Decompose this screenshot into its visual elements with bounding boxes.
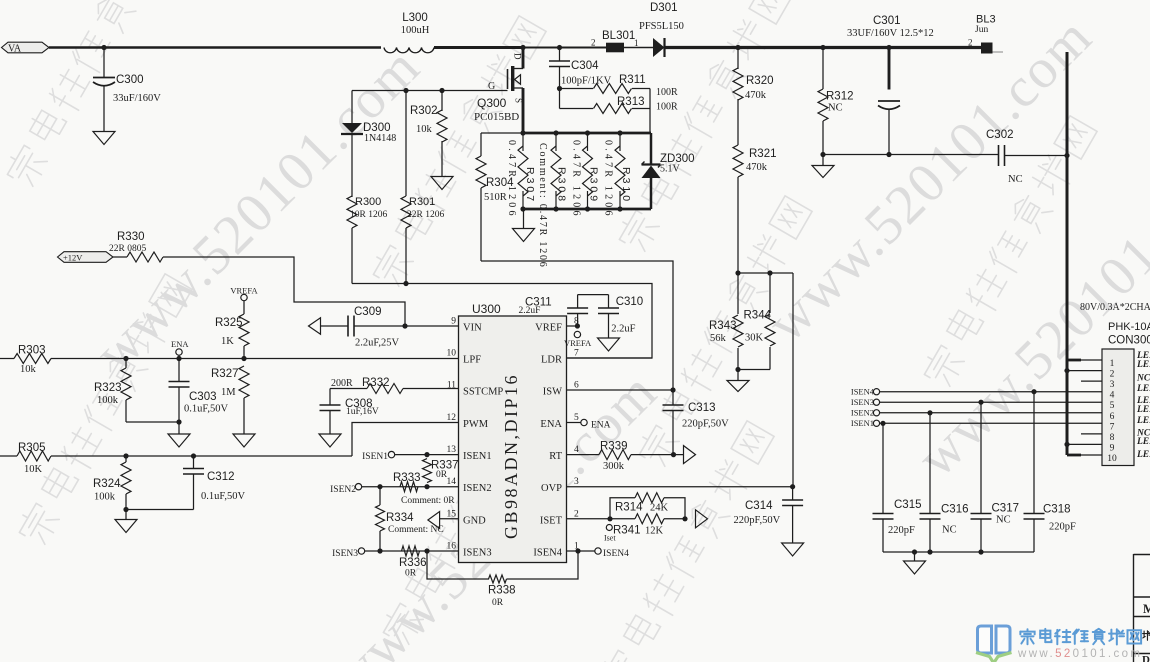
wire OVP drop bbox=[792, 273, 794, 487]
svg-text:ISEN2: ISEN2 bbox=[330, 485, 356, 495]
svg-text:C310: C310 bbox=[616, 296, 644, 308]
svg-text:ISEN1: ISEN1 bbox=[463, 451, 492, 462]
svg-text:NC: NC bbox=[1136, 374, 1150, 384]
ground C314 bbox=[782, 543, 804, 556]
capacitor C313 bbox=[663, 404, 684, 406]
svg-text:R311: R311 bbox=[619, 74, 646, 86]
resistor R334 bbox=[379, 487, 381, 505]
transistor Q300 bbox=[520, 45, 525, 50]
resistor R323 bbox=[123, 356, 128, 361]
svg-text:7: 7 bbox=[1110, 422, 1115, 432]
svg-text:1M: 1M bbox=[221, 387, 236, 398]
svg-text:2.2uF: 2.2uF bbox=[611, 324, 635, 335]
svg-text:R302: R302 bbox=[410, 105, 438, 117]
zener ZD300 bbox=[650, 133, 653, 165]
svg-text:Jun: Jun bbox=[975, 25, 988, 35]
resistor R343 bbox=[737, 273, 739, 314]
svg-text:0.1uF,50V: 0.1uF,50V bbox=[184, 404, 228, 415]
svg-text:Comment: 0.47R 1206: Comment: 0.47R 1206 bbox=[537, 143, 548, 269]
svg-text:1N4148: 1N4148 bbox=[364, 133, 396, 144]
wire gate bbox=[352, 90, 508, 92]
svg-text:6: 6 bbox=[574, 381, 579, 391]
resistor R303 bbox=[0, 358, 14, 360]
wire bus to pin1 bbox=[1067, 359, 1081, 362]
resistor R310 bbox=[615, 146, 625, 196]
capacitor C300 bbox=[103, 48, 105, 78]
resistor R320 bbox=[735, 45, 740, 50]
svg-text:C302: C302 bbox=[986, 129, 1014, 141]
svg-text:R339: R339 bbox=[600, 441, 628, 453]
svg-text:C315: C315 bbox=[894, 499, 922, 511]
resistor R302 bbox=[441, 91, 443, 112]
capacitor C311 bbox=[567, 325, 578, 327]
svg-text:ISET: ISET bbox=[540, 515, 563, 526]
svg-text:10k: 10k bbox=[416, 124, 433, 135]
svg-text:1: 1 bbox=[634, 38, 639, 48]
wire R321 junction bbox=[738, 272, 793, 274]
wire rail to LDR bbox=[352, 284, 652, 359]
svg-text:R323: R323 bbox=[94, 382, 122, 394]
svg-text:100pF/1KV: 100pF/1KV bbox=[561, 76, 612, 87]
svg-text:R309: R309 bbox=[588, 167, 600, 204]
svg-text:R338: R338 bbox=[488, 585, 516, 597]
svg-text:ISEN1: ISEN1 bbox=[362, 452, 388, 462]
svg-text:1uF,16V: 1uF,16V bbox=[346, 407, 379, 417]
resistor R304 bbox=[481, 132, 523, 134]
svg-text:R324: R324 bbox=[93, 478, 121, 490]
svg-text:1K: 1K bbox=[221, 336, 234, 347]
svg-text:OVP: OVP bbox=[541, 483, 562, 494]
svg-text:3: 3 bbox=[574, 477, 579, 487]
resistor R327 bbox=[239, 366, 249, 398]
svg-text:R310: R310 bbox=[620, 167, 632, 204]
svg-text:2: 2 bbox=[591, 38, 596, 48]
ferrite bead BL302 bbox=[981, 43, 993, 54]
inductor L300 bbox=[384, 48, 434, 53]
svg-text:PWM: PWM bbox=[463, 419, 489, 430]
svg-text:R343: R343 bbox=[709, 320, 737, 332]
svg-text:220pF: 220pF bbox=[888, 525, 915, 536]
svg-text:Comment: 0R: Comment: 0R bbox=[401, 496, 455, 506]
svg-text:BL3: BL3 bbox=[976, 14, 996, 26]
svg-text:BL301: BL301 bbox=[602, 30, 635, 42]
resistor R339 bbox=[567, 454, 600, 456]
resistor R324 bbox=[123, 453, 128, 458]
svg-text:LPF: LPF bbox=[463, 355, 481, 366]
svg-text:RT: RT bbox=[549, 451, 562, 462]
ground C308 bbox=[319, 434, 341, 447]
svg-text:300k: 300k bbox=[603, 461, 625, 472]
svg-text:R320: R320 bbox=[746, 75, 774, 87]
svg-text:D: D bbox=[513, 53, 523, 60]
svg-text:ISEN2: ISEN2 bbox=[463, 483, 492, 494]
svg-text:R333: R333 bbox=[393, 472, 421, 484]
svg-text:C316: C316 bbox=[941, 504, 969, 516]
svg-text:0.47R 1206: 0.47R 1206 bbox=[571, 140, 582, 219]
ground C303 bbox=[168, 434, 190, 447]
svg-text:220pF,50V: 220pF,50V bbox=[734, 515, 781, 526]
svg-text:15: 15 bbox=[447, 509, 457, 519]
svg-text:R303: R303 bbox=[18, 345, 46, 357]
ground R324 bbox=[115, 520, 137, 533]
svg-text:PHK-10A: PHK-10A bbox=[1108, 321, 1150, 333]
capacitor C318 bbox=[1031, 389, 1036, 394]
svg-text:C304: C304 bbox=[571, 60, 599, 72]
svg-text:C300: C300 bbox=[116, 74, 144, 86]
capacitor C316 bbox=[927, 410, 932, 415]
svg-text:L300: L300 bbox=[402, 12, 428, 24]
svg-text:100uH: 100uH bbox=[401, 25, 430, 36]
capacitor C302 bbox=[998, 145, 1000, 166]
resistor R341 bbox=[567, 518, 611, 520]
svg-text:30K: 30K bbox=[745, 333, 764, 344]
svg-text:80V/0.3A*2CHA: 80V/0.3A*2CHA bbox=[1080, 302, 1150, 313]
svg-text:C309: C309 bbox=[354, 306, 382, 318]
svg-text:C313: C313 bbox=[688, 402, 716, 414]
svg-text:0R: 0R bbox=[436, 470, 448, 480]
svg-text:10R 1206: 10R 1206 bbox=[350, 210, 387, 220]
svg-text:5: 5 bbox=[574, 413, 579, 423]
svg-text:10k: 10k bbox=[20, 364, 37, 375]
wire pin8 stub bbox=[1081, 433, 1102, 435]
resistor R311 bbox=[557, 86, 562, 91]
svg-text:100k: 100k bbox=[94, 492, 116, 503]
resistor R344 bbox=[769, 273, 771, 313]
svg-text:2: 2 bbox=[968, 38, 973, 48]
wire thick bus top bbox=[523, 132, 651, 135]
svg-text:0.1uF,50V: 0.1uF,50V bbox=[201, 491, 245, 502]
ground C310 bbox=[598, 338, 620, 351]
capacitor C308 bbox=[329, 389, 331, 405]
svg-text:R327: R327 bbox=[211, 368, 239, 380]
capacitor C315 bbox=[880, 421, 885, 426]
svg-text:R304: R304 bbox=[486, 177, 514, 189]
svg-text:470k: 470k bbox=[746, 162, 768, 173]
svg-text:NC: NC bbox=[828, 103, 843, 114]
svg-text:470k: 470k bbox=[745, 90, 767, 101]
ground bus bbox=[523, 209, 525, 228]
svg-text:ISEN3: ISEN3 bbox=[851, 397, 874, 407]
arrow ISET bbox=[696, 510, 708, 528]
diode D301 bbox=[653, 38, 665, 57]
wire pin3 stub bbox=[1081, 380, 1102, 382]
svg-text:R336: R336 bbox=[399, 557, 427, 569]
ground arrow C309 bbox=[309, 318, 321, 335]
svg-text:S: S bbox=[514, 98, 524, 103]
svg-text:220pF,50V: 220pF,50V bbox=[682, 419, 729, 430]
net label VA tag bbox=[2, 42, 50, 53]
svg-text:16: 16 bbox=[447, 542, 457, 552]
svg-text:VREFA: VREFA bbox=[230, 286, 258, 296]
svg-text:C314: C314 bbox=[745, 500, 773, 512]
logo book base bbox=[976, 653, 1012, 664]
wire OVP bbox=[567, 486, 793, 488]
capacitor C301 bbox=[886, 45, 891, 50]
logo text chinese bbox=[1020, 629, 1141, 645]
net label ENA pin5 bbox=[567, 422, 581, 424]
svg-text:ISW: ISW bbox=[543, 387, 562, 398]
svg-text:100R: 100R bbox=[656, 102, 678, 113]
ground R327 bbox=[233, 434, 255, 447]
svg-text:4: 4 bbox=[1110, 391, 1115, 401]
svg-text:U300: U300 bbox=[472, 302, 501, 316]
wire LDR bbox=[567, 357, 653, 359]
svg-text:LED: LED bbox=[1136, 360, 1150, 370]
ground C300 bbox=[93, 132, 115, 145]
svg-text:ENA: ENA bbox=[540, 419, 562, 430]
svg-text:12K: 12K bbox=[645, 526, 664, 537]
diode D300 bbox=[351, 91, 353, 124]
capacitor C314 bbox=[792, 487, 794, 500]
svg-text:8: 8 bbox=[1110, 433, 1115, 443]
svg-text:13: 13 bbox=[447, 445, 457, 455]
svg-text:4: 4 bbox=[574, 445, 579, 455]
svg-text:ISEN3: ISEN3 bbox=[463, 548, 492, 559]
resistor R305 bbox=[0, 455, 17, 457]
net VA top rail wire bbox=[49, 46, 381, 49]
svg-text:R300: R300 bbox=[355, 196, 381, 208]
svg-text:LDR: LDR bbox=[541, 355, 562, 366]
svg-text:LED: LED bbox=[1136, 384, 1150, 394]
svg-text:R313: R313 bbox=[617, 96, 645, 108]
svg-text:VA: VA bbox=[8, 44, 22, 55]
capacitor C312 bbox=[191, 453, 196, 458]
resistor R309 bbox=[583, 146, 593, 196]
arrow RT bbox=[684, 446, 696, 464]
ground arrow GND pin15 bbox=[428, 512, 440, 529]
svg-text:33UF/160V 12.5*12: 33UF/160V 12.5*12 bbox=[847, 28, 934, 39]
svg-text:C312: C312 bbox=[207, 471, 235, 483]
svg-text:10K: 10K bbox=[24, 464, 43, 475]
wire stub after BL302 bbox=[993, 51, 1004, 53]
svg-text:ISEN1: ISEN1 bbox=[851, 418, 874, 428]
logo book icon bbox=[978, 626, 1011, 653]
svg-text:ISEN4: ISEN4 bbox=[851, 387, 875, 397]
wire bus to pin10 bbox=[1067, 454, 1081, 457]
svg-text:LED: LED bbox=[1136, 416, 1150, 426]
svg-text:+12V: +12V bbox=[63, 253, 83, 263]
title block table bbox=[1133, 554, 1135, 662]
ground R302 bbox=[431, 177, 453, 190]
wire C301 bottom bbox=[823, 154, 999, 156]
svg-text:VREFA: VREFA bbox=[564, 338, 592, 348]
svg-text:2.2uF: 2.2uF bbox=[519, 306, 541, 316]
svg-text:R325: R325 bbox=[215, 317, 243, 329]
svg-text:9: 9 bbox=[1110, 443, 1115, 453]
svg-text:220pF: 220pF bbox=[1049, 522, 1076, 533]
net circle VREFA pin8 bbox=[574, 331, 580, 337]
svg-text:GND: GND bbox=[463, 515, 486, 526]
svg-text:SSTCMP: SSTCMP bbox=[463, 387, 503, 398]
svg-text:VIN: VIN bbox=[463, 323, 482, 334]
resistor R338 bbox=[427, 551, 489, 579]
svg-text:2.2uF,25V: 2.2uF,25V bbox=[355, 338, 399, 349]
svg-text:7: 7 bbox=[574, 349, 579, 359]
resistor R301 bbox=[405, 91, 407, 197]
capacitor C304 bbox=[557, 45, 562, 50]
svg-text:PC015BD: PC015BD bbox=[474, 111, 519, 123]
resistor R314 bbox=[610, 498, 635, 519]
svg-text:100k: 100k bbox=[97, 395, 119, 406]
svg-text:NC: NC bbox=[1008, 174, 1023, 185]
ground R343 bbox=[737, 370, 739, 381]
svg-text:24K: 24K bbox=[650, 503, 669, 514]
resistor R332 bbox=[330, 388, 367, 390]
svg-text:R330: R330 bbox=[117, 231, 145, 243]
svg-text:C301: C301 bbox=[873, 15, 901, 27]
wire R304 to ISW bbox=[481, 261, 673, 390]
svg-text:3: 3 bbox=[1110, 380, 1115, 390]
svg-text:R301: R301 bbox=[409, 196, 435, 208]
net circle VREFA bbox=[241, 294, 247, 300]
svg-text:C303: C303 bbox=[189, 391, 217, 403]
svg-text:NC: NC bbox=[996, 515, 1011, 526]
svg-text:R332: R332 bbox=[362, 377, 390, 389]
svg-text:ISEN4: ISEN4 bbox=[603, 549, 629, 559]
svg-text:NC: NC bbox=[942, 525, 957, 536]
svg-text:R334: R334 bbox=[386, 512, 414, 524]
svg-text:R314: R314 bbox=[615, 502, 643, 514]
svg-text:R305: R305 bbox=[18, 442, 46, 454]
svg-text:DA: DA bbox=[1142, 654, 1150, 662]
svg-text:M: M bbox=[1143, 602, 1150, 616]
capacitor C317 bbox=[978, 400, 983, 405]
svg-text:GB98ADN,DIP16: GB98ADN,DIP16 bbox=[501, 373, 521, 539]
svg-text:LED: LED bbox=[1136, 405, 1150, 415]
svg-text:10: 10 bbox=[1107, 454, 1117, 464]
svg-text:10: 10 bbox=[447, 349, 457, 359]
resistor R313 bbox=[559, 89, 561, 109]
ferrite bead BL301 bbox=[606, 43, 624, 53]
wire R330 to VIN bbox=[163, 257, 405, 326]
svg-text:510R: 510R bbox=[484, 192, 507, 203]
capacitor C310 bbox=[608, 295, 610, 308]
resistor R307 bbox=[518, 146, 528, 196]
svg-text:ENA: ENA bbox=[591, 421, 611, 431]
resistor R308 bbox=[551, 146, 561, 196]
svg-text:LED: LED bbox=[1136, 450, 1150, 460]
resistor R330 bbox=[58, 252, 114, 263]
svg-text:0R: 0R bbox=[405, 569, 417, 579]
wire VLED thick bus bbox=[1066, 52, 1069, 455]
svg-text:Comment: NC: Comment: NC bbox=[388, 525, 444, 535]
svg-text:R321: R321 bbox=[749, 148, 777, 160]
svg-text:CON300: CON300 bbox=[1108, 335, 1150, 347]
resistor R300 bbox=[347, 196, 357, 228]
svg-text:ENA: ENA bbox=[171, 339, 189, 349]
svg-text:2: 2 bbox=[574, 509, 579, 519]
svg-text:C318: C318 bbox=[1043, 504, 1071, 516]
svg-text:2: 2 bbox=[1110, 370, 1115, 380]
wire thick bus bottom bbox=[523, 208, 651, 211]
svg-text:D301: D301 bbox=[650, 2, 678, 14]
svg-text:12: 12 bbox=[447, 413, 457, 423]
svg-text:ISEN2: ISEN2 bbox=[851, 408, 874, 418]
wire bus to pin2 bbox=[1064, 368, 1069, 373]
net label ISEN4 right of IC bbox=[567, 550, 596, 552]
svg-text:6: 6 bbox=[1110, 412, 1115, 422]
svg-text:ISEN3: ISEN3 bbox=[332, 549, 358, 559]
resistor R337 bbox=[423, 459, 432, 483]
svg-text:LED: LED bbox=[1136, 437, 1150, 447]
svg-text:22R 0805: 22R 0805 bbox=[109, 244, 146, 254]
Q300 arrow bbox=[515, 75, 521, 85]
svg-text:C317: C317 bbox=[992, 503, 1020, 515]
svg-text:33uF/160V: 33uF/160V bbox=[113, 93, 161, 104]
resistor R336 bbox=[402, 546, 420, 556]
svg-text:1: 1 bbox=[1110, 359, 1115, 369]
svg-text:R307: R307 bbox=[524, 167, 536, 204]
svg-text:5.1V: 5.1V bbox=[660, 164, 681, 175]
svg-text:56k: 56k bbox=[710, 333, 727, 344]
op-amp U300 GB98ADN bbox=[459, 316, 567, 563]
svg-text:PFS5L150: PFS5L150 bbox=[639, 21, 684, 32]
wire ISW bbox=[567, 389, 674, 391]
svg-text:R344: R344 bbox=[744, 310, 772, 322]
svg-text:VREF: VREF bbox=[535, 323, 562, 334]
net circle Iset bbox=[606, 525, 612, 531]
wire cap ground rail bbox=[883, 551, 1034, 553]
ground R312 bbox=[822, 155, 824, 166]
svg-text:R308: R308 bbox=[556, 167, 568, 204]
resistor R333 bbox=[400, 482, 418, 492]
svg-text:R341: R341 bbox=[613, 525, 641, 537]
svg-text:9: 9 bbox=[451, 317, 456, 327]
svg-text:100R: 100R bbox=[656, 87, 678, 98]
svg-text:R312: R312 bbox=[826, 91, 854, 103]
svg-text:www.520101.com: www.520101.com bbox=[1017, 648, 1142, 660]
svg-text:0.47R 1206: 0.47R 1206 bbox=[603, 140, 614, 219]
resistor R312 bbox=[820, 45, 825, 50]
svg-text:14: 14 bbox=[447, 477, 457, 487]
svg-text:200R: 200R bbox=[331, 378, 353, 389]
svg-text:ISEN4: ISEN4 bbox=[533, 548, 562, 559]
svg-text:5: 5 bbox=[1110, 401, 1115, 411]
net circle ENA bbox=[176, 349, 182, 355]
ground C315 rail bbox=[904, 561, 926, 574]
svg-text:22R 1206: 22R 1206 bbox=[407, 210, 444, 220]
connector CON300 bbox=[1102, 349, 1134, 466]
wire R305 to PWM bbox=[352, 423, 459, 457]
svg-text:0R: 0R bbox=[492, 598, 504, 608]
wire bus to pin9 bbox=[1064, 442, 1069, 447]
svg-text:Q300: Q300 bbox=[477, 96, 507, 110]
resistor R321 bbox=[733, 145, 743, 177]
